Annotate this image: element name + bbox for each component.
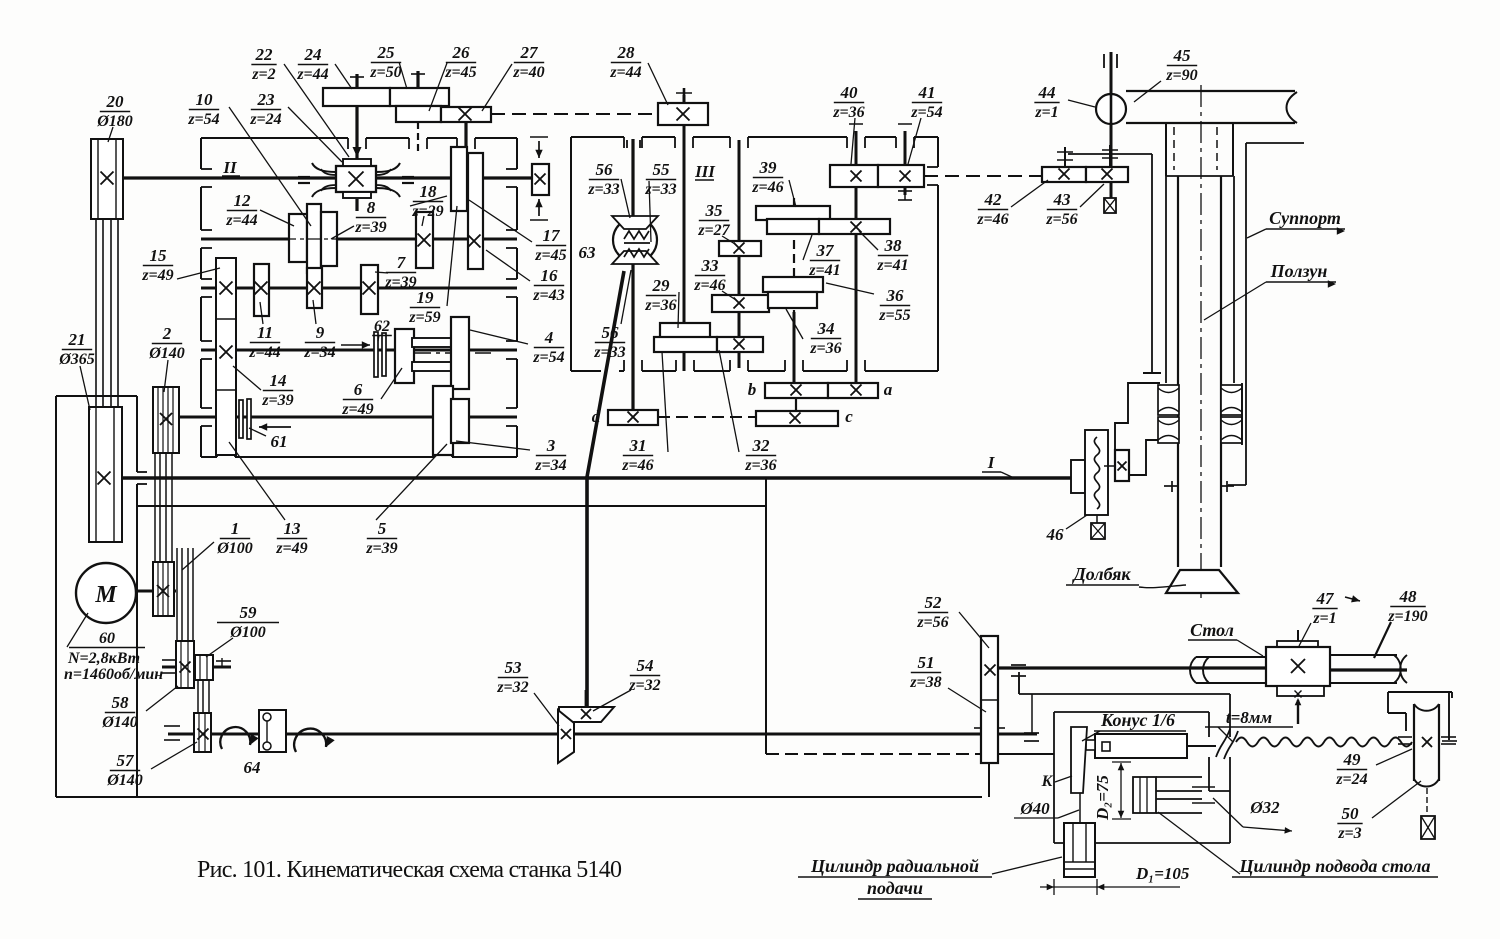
svg-text:z=90: z=90 xyxy=(1165,67,1197,84)
svg-text:Цилиндр подвода стола: Цилиндр подвода стола xyxy=(1239,856,1431,876)
svg-text:z=24: z=24 xyxy=(249,111,281,128)
svg-text:15: 15 xyxy=(150,246,168,265)
svg-text:a: a xyxy=(884,380,893,399)
svg-text:z=54: z=54 xyxy=(187,111,219,128)
svg-text:33: 33 xyxy=(701,256,720,275)
svg-text:Долбяк: Долбяк xyxy=(1071,564,1131,584)
svg-text:64: 64 xyxy=(244,758,261,777)
svg-text:10: 10 xyxy=(196,90,214,109)
svg-text:z=46: z=46 xyxy=(693,277,725,294)
svg-text:Рис. 101. Кинематическая схема: Рис. 101. Кинематическая схема станка 51… xyxy=(197,857,622,883)
svg-text:z=24: z=24 xyxy=(1335,771,1367,788)
svg-text:z=32: z=32 xyxy=(628,677,660,694)
svg-text:z=46: z=46 xyxy=(751,179,783,196)
svg-text:z=36: z=36 xyxy=(809,340,841,357)
svg-text:z=29: z=29 xyxy=(411,203,443,220)
svg-text:13: 13 xyxy=(284,519,302,538)
svg-text:z=50: z=50 xyxy=(369,64,401,81)
svg-text:31: 31 xyxy=(629,436,647,455)
svg-text:z=34: z=34 xyxy=(534,457,566,474)
svg-text:z=44: z=44 xyxy=(609,64,641,81)
svg-text:Ø180: Ø180 xyxy=(96,113,133,130)
svg-text:3: 3 xyxy=(546,436,556,455)
svg-text:62: 62 xyxy=(374,318,390,335)
svg-text:z=33: z=33 xyxy=(587,181,619,198)
svg-text:22: 22 xyxy=(255,45,274,64)
svg-text:46: 46 xyxy=(1046,525,1065,544)
svg-text:z=44: z=44 xyxy=(225,212,257,229)
svg-text:z=1: z=1 xyxy=(1034,104,1058,121)
svg-text:подачи: подачи xyxy=(867,878,923,898)
svg-text:z=39: z=39 xyxy=(365,540,397,557)
svg-text:Ø140: Ø140 xyxy=(106,772,143,789)
svg-text:z=33: z=33 xyxy=(593,344,625,361)
svg-text:z=45: z=45 xyxy=(534,247,566,264)
svg-text:z=41: z=41 xyxy=(876,257,908,274)
svg-text:Ø32: Ø32 xyxy=(1249,798,1280,817)
svg-text:Стол: Стол xyxy=(1190,620,1234,640)
svg-text:z=49: z=49 xyxy=(275,540,307,557)
svg-text:z=43: z=43 xyxy=(532,287,564,304)
svg-text:z=39: z=39 xyxy=(384,274,416,291)
svg-text:z=44: z=44 xyxy=(296,66,328,83)
svg-text:z=54: z=54 xyxy=(532,349,564,366)
svg-text:b: b xyxy=(748,380,757,399)
svg-text:Ø100: Ø100 xyxy=(216,540,253,557)
svg-text:z=56: z=56 xyxy=(1045,211,1077,228)
svg-text:d: d xyxy=(592,407,601,426)
svg-text:Ползун: Ползун xyxy=(1270,261,1328,281)
svg-text:z=41: z=41 xyxy=(808,262,840,279)
svg-text:z=34: z=34 xyxy=(303,344,335,361)
svg-text:27: 27 xyxy=(520,43,540,62)
svg-text:18: 18 xyxy=(420,182,438,201)
svg-text:t=8мм: t=8мм xyxy=(1226,708,1273,727)
svg-text:1: 1 xyxy=(231,519,240,538)
svg-text:32: 32 xyxy=(752,436,771,455)
svg-text:Ø365: Ø365 xyxy=(58,351,95,368)
svg-text:35: 35 xyxy=(705,201,724,220)
svg-text:24: 24 xyxy=(304,45,322,64)
svg-text:z=36: z=36 xyxy=(744,457,776,474)
svg-text:41: 41 xyxy=(918,83,936,102)
svg-text:Конус 1/6: Конус 1/6 xyxy=(1100,710,1175,730)
svg-text:z=1: z=1 xyxy=(1312,610,1336,627)
svg-text:56: 56 xyxy=(602,323,620,342)
svg-text:D₂=75: D₂=75 xyxy=(1093,775,1112,821)
svg-text:z=36: z=36 xyxy=(832,104,864,121)
svg-text:K: K xyxy=(1041,773,1054,790)
svg-text:37: 37 xyxy=(816,241,836,260)
svg-text:z=38: z=38 xyxy=(909,674,941,691)
svg-text:34: 34 xyxy=(817,319,835,338)
svg-text:z=36: z=36 xyxy=(644,297,676,314)
svg-text:n=1460об/мин: n=1460об/мин xyxy=(64,666,163,683)
svg-text:D₁=105: D₁=105 xyxy=(1135,864,1190,883)
svg-text:z=49: z=49 xyxy=(341,401,373,418)
svg-text:20: 20 xyxy=(106,92,125,111)
svg-text:11: 11 xyxy=(257,323,273,342)
svg-text:z=39: z=39 xyxy=(261,392,293,409)
svg-text:51: 51 xyxy=(918,653,935,672)
svg-text:Ø100: Ø100 xyxy=(229,624,266,641)
svg-text:z=44: z=44 xyxy=(248,344,280,361)
svg-text:47: 47 xyxy=(1316,589,1336,608)
svg-text:52: 52 xyxy=(925,593,943,612)
svg-text:6: 6 xyxy=(354,380,363,399)
svg-text:38: 38 xyxy=(884,236,903,255)
svg-text:N=2,8кВт: N=2,8кВт xyxy=(67,650,140,667)
svg-text:c: c xyxy=(845,407,853,426)
svg-text:57: 57 xyxy=(117,751,136,770)
svg-text:z=2: z=2 xyxy=(251,66,275,83)
svg-text:17: 17 xyxy=(543,226,562,245)
svg-text:z=40: z=40 xyxy=(512,64,544,81)
svg-text:Ø140: Ø140 xyxy=(148,345,185,362)
svg-text:56: 56 xyxy=(596,160,614,179)
svg-text:60: 60 xyxy=(99,630,115,647)
svg-text:2: 2 xyxy=(162,324,172,343)
svg-text:z=3: z=3 xyxy=(1337,825,1361,842)
svg-text:z=54: z=54 xyxy=(910,104,942,121)
svg-text:54: 54 xyxy=(637,656,654,675)
svg-text:12: 12 xyxy=(234,191,252,210)
svg-text:z=59: z=59 xyxy=(408,309,440,326)
svg-text:4: 4 xyxy=(544,328,554,347)
svg-text:5: 5 xyxy=(378,519,387,538)
svg-text:53: 53 xyxy=(505,658,523,677)
svg-text:49: 49 xyxy=(1343,750,1362,769)
svg-text:16: 16 xyxy=(541,266,559,285)
svg-text:z=45: z=45 xyxy=(444,64,476,81)
svg-text:M: M xyxy=(94,582,118,608)
svg-text:Цилиндр радиальной: Цилиндр радиальной xyxy=(810,856,979,876)
svg-text:z=46: z=46 xyxy=(976,211,1008,228)
svg-text:Ø140: Ø140 xyxy=(101,714,138,731)
svg-text:55: 55 xyxy=(653,160,671,179)
svg-text:63: 63 xyxy=(579,243,597,262)
svg-text:21: 21 xyxy=(68,330,86,349)
svg-text:58: 58 xyxy=(112,693,130,712)
svg-text:z=55: z=55 xyxy=(878,307,910,324)
svg-text:14: 14 xyxy=(270,371,287,390)
svg-text:z=190: z=190 xyxy=(1387,608,1427,625)
svg-text:Ø40: Ø40 xyxy=(1019,799,1050,818)
svg-text:42: 42 xyxy=(984,190,1003,209)
svg-text:z=56: z=56 xyxy=(916,614,948,631)
svg-text:48: 48 xyxy=(1399,587,1418,606)
svg-text:z=32: z=32 xyxy=(496,679,528,696)
svg-text:39: 39 xyxy=(759,158,778,177)
svg-text:50: 50 xyxy=(1342,804,1360,823)
svg-text:36: 36 xyxy=(886,286,905,305)
svg-text:Суппорт: Суппорт xyxy=(1269,208,1341,228)
svg-text:43: 43 xyxy=(1053,190,1072,209)
svg-text:z=27: z=27 xyxy=(697,222,730,239)
svg-text:59: 59 xyxy=(240,603,258,622)
svg-text:z=39: z=39 xyxy=(354,219,386,236)
svg-text:z=49: z=49 xyxy=(141,267,173,284)
svg-text:28: 28 xyxy=(617,43,636,62)
svg-text:29: 29 xyxy=(652,276,671,295)
svg-text:61: 61 xyxy=(271,432,288,451)
svg-text:9: 9 xyxy=(316,323,325,342)
svg-text:23: 23 xyxy=(257,90,276,109)
svg-text:45: 45 xyxy=(1173,46,1192,65)
svg-text:26: 26 xyxy=(452,43,471,62)
svg-text:II: II xyxy=(222,158,238,177)
svg-text:8: 8 xyxy=(367,198,376,217)
svg-text:25: 25 xyxy=(377,43,396,62)
svg-text:z=46: z=46 xyxy=(621,457,653,474)
svg-text:III: III xyxy=(694,162,716,181)
svg-text:40: 40 xyxy=(840,83,859,102)
svg-text:19: 19 xyxy=(417,288,435,307)
svg-text:44: 44 xyxy=(1038,83,1056,102)
